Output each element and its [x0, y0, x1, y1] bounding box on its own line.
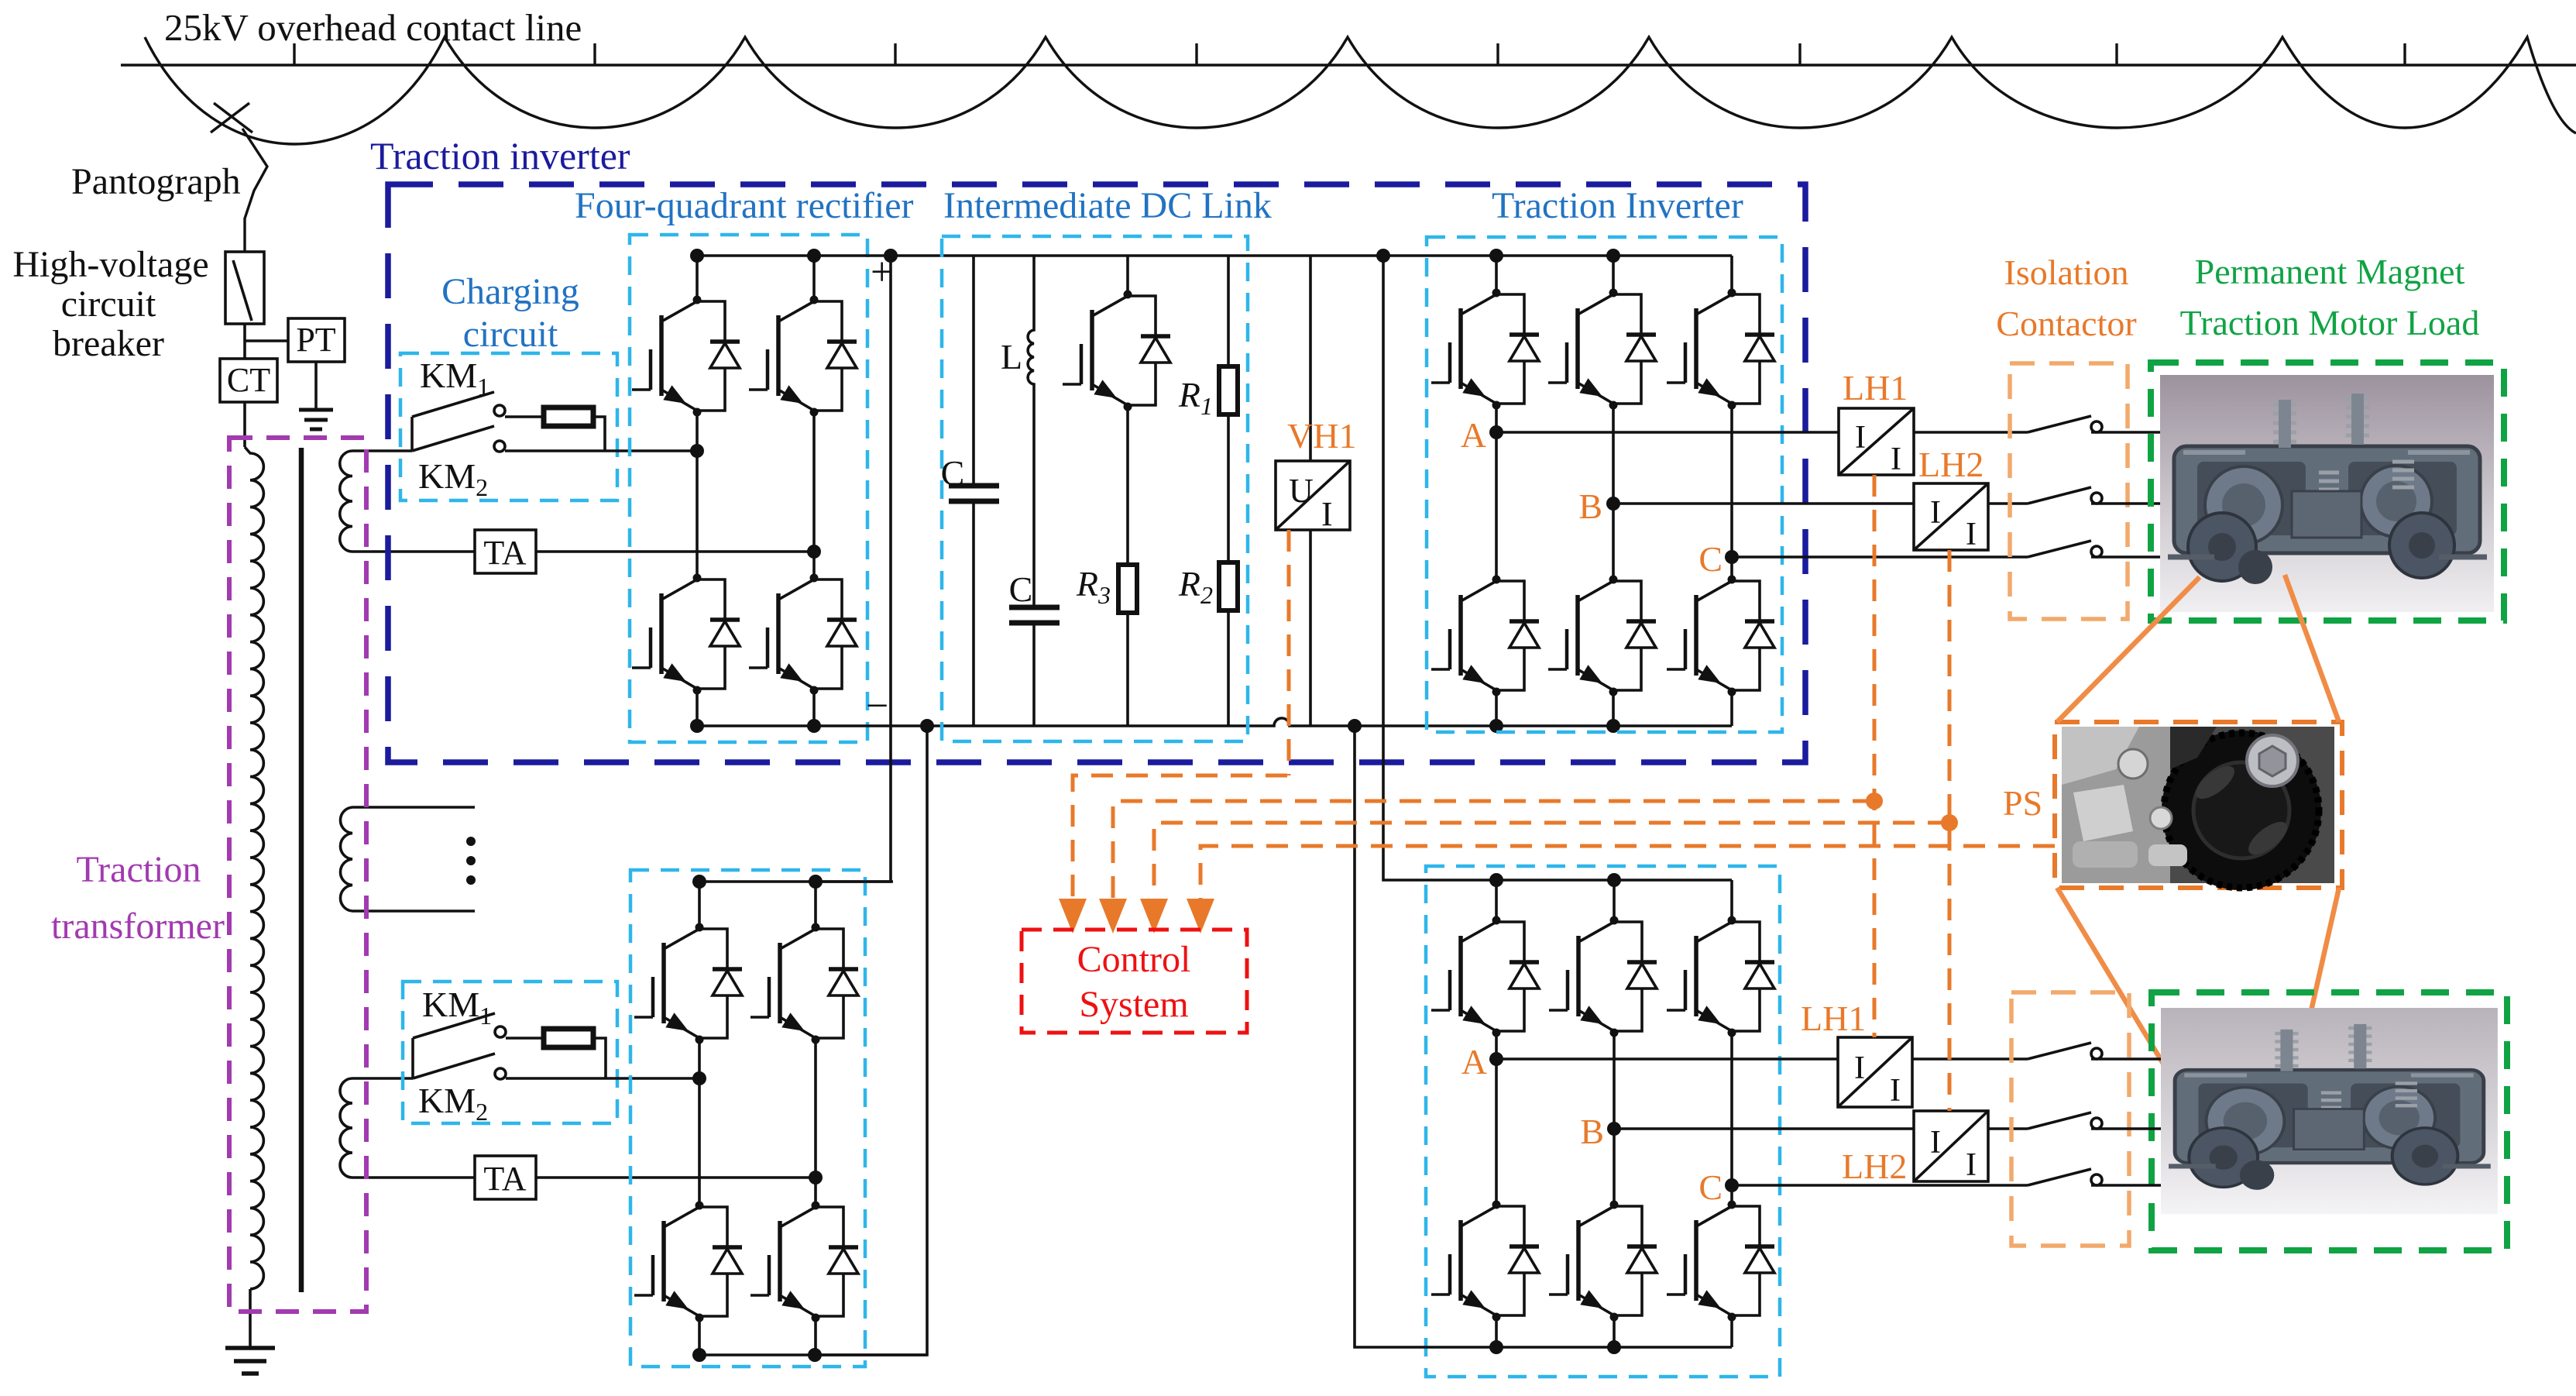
transistor V19 — [1431, 1201, 1539, 1322]
svg-text:TA: TA — [483, 1160, 526, 1198]
svg-text:VH1: VH1 — [1287, 416, 1356, 456]
box: Four-quadrant rectifier (cyan dashed) — [630, 235, 867, 742]
wire: VH1 signal (orange dashed) — [1287, 530, 1291, 775]
ground (transformer earth) — [225, 1348, 275, 1374]
svg-text:A: A — [1461, 1042, 1487, 1081]
transistor V18 — [1667, 916, 1774, 1037]
transistor V17 — [1549, 916, 1657, 1037]
wire: W3 bottom lead to TA — [352, 1176, 475, 1179]
box: Traction Inverter (cyan dashed) — [1427, 237, 1782, 732]
node: phase A junction — [1489, 425, 1503, 439]
wire: plus feed to lower inverter — [1383, 256, 1732, 880]
node: junction TA/rectifier — [807, 545, 821, 559]
transistor V15 — [750, 1202, 858, 1322]
transformer TA (current sensor) — [475, 530, 821, 573]
wire: W3 top lead — [352, 1077, 413, 1080]
switch contactor A lower — [2028, 1043, 2102, 1059]
node: minus bus junctions — [690, 719, 704, 733]
node: LH2 signal junction — [1941, 814, 1958, 831]
svg-text:PT: PT — [296, 321, 335, 359]
wire: catenary messenger curve — [145, 37, 2576, 144]
node: traction bogie photo lower — [2161, 1008, 2498, 1214]
transistor V11 — [1667, 576, 1774, 696]
box: Traction transformer (purple dashed) — [229, 438, 366, 1312]
wire: W2 bottom lead — [352, 909, 475, 913]
box: Permanent Magnet Traction Motor Load upper (green dashed) — [2151, 363, 2504, 621]
svg-text:PS: PS — [2003, 783, 2042, 823]
transformer core — [299, 448, 304, 1292]
ground (PT earth) — [299, 410, 333, 429]
wire: phase B line — [1613, 502, 1914, 505]
box: Charging circuit (cyan dashed) — [400, 353, 617, 500]
resistor R3 — [1118, 565, 1137, 613]
transformer CT (current transformer) — [220, 359, 277, 402]
wire: phase B after LH2 — [1988, 502, 2028, 505]
wire: rectifier right leg — [812, 256, 816, 726]
svg-text:B: B — [1580, 1112, 1604, 1151]
wire: contactor A to motor — [2091, 431, 2160, 434]
svg-text:C: C — [941, 453, 965, 493]
switch contactor A upper — [2028, 416, 2102, 432]
node: junction KM2/rectifier — [690, 444, 704, 458]
svg-text:L: L — [1001, 337, 1022, 377]
wire: lower rectifier left leg — [698, 882, 701, 1355]
wire: lower phase B line — [1614, 1127, 1914, 1130]
svg-text:C: C — [1698, 1167, 1722, 1207]
wire: inverter leg C — [1730, 256, 1733, 726]
wire: lower inverter leg C — [1730, 880, 1733, 1347]
wire: lower inverter leg B — [1613, 880, 1616, 1347]
resistor R charging — [544, 407, 593, 426]
wire: PS signal horizontal — [1200, 846, 2055, 905]
transistor V16 — [1431, 916, 1539, 1037]
wire: minus feed down to lower rectifier — [815, 726, 927, 1355]
transistor V3 (IGBT+diode) — [632, 574, 740, 695]
svg-text:Contactor: Contactor — [1996, 304, 2136, 343]
transistor V21 — [1667, 1201, 1774, 1322]
box: Permanent Magnet Traction Motor Load lower (green dashed) — [2152, 992, 2507, 1250]
svg-text:breaker: breaker — [53, 323, 164, 364]
box: Isolation Contactor lower (pale orange dashed) — [2011, 992, 2129, 1246]
svg-text:Permanent Magnet: Permanent Magnet — [2195, 252, 2465, 291]
wire: leader PS inset to lower bogie — [2057, 888, 2339, 1168]
wire: lower rectifier bottom bus — [698, 1353, 927, 1356]
pantograph arm — [242, 129, 267, 252]
svg-text:transformer: transformer — [51, 906, 225, 947]
svg-text:Control: Control — [1077, 939, 1191, 980]
capacitor C filter 1 — [972, 256, 975, 726]
svg-text:C: C — [1009, 569, 1033, 609]
wire: breaker to CT — [243, 324, 246, 447]
wire: lower rectifier top bus — [698, 880, 893, 883]
wire: contactor A to motor lower — [2091, 1057, 2161, 1061]
transistor V7 — [1548, 289, 1656, 410]
wire: R1-R2 branch — [1227, 256, 1230, 726]
box: Traction inverter (dark blue dashed) — [388, 184, 1805, 762]
transformer secondary winding W2 (spare) — [340, 807, 352, 911]
wire: lower inverter leg A — [1495, 880, 1498, 1347]
transistor V6 — [1431, 289, 1539, 410]
box: PS sensor inset (orange dashed) — [2055, 722, 2342, 888]
svg-text:Traction Motor Load: Traction Motor Load — [2180, 303, 2480, 342]
svg-text:Isolation: Isolation — [2004, 253, 2129, 292]
svg-text:I: I — [1930, 1125, 1941, 1160]
transistor V10 — [1548, 576, 1656, 696]
node: LH1 signal junction — [1866, 793, 1883, 810]
transistor V2 (IGBT+diode) — [749, 296, 857, 417]
svg-text:LH1: LH1 — [1843, 368, 1908, 407]
wire: KM2 output to lower rectifier leg — [506, 1077, 699, 1080]
resistor R1 — [1219, 366, 1238, 414]
switch contactor C lower — [2028, 1169, 2102, 1185]
svg-text:High-voltage: High-voltage — [12, 244, 208, 285]
circuit breaker QF (high-voltage) — [225, 252, 264, 324]
wire: contactor B to motor — [2091, 502, 2160, 505]
svg-text:Traction inverter: Traction inverter — [370, 134, 630, 177]
node: catenary support ticks — [294, 43, 2405, 65]
svg-text:C: C — [1698, 539, 1722, 579]
wire: inverter leg A — [1495, 256, 1498, 726]
wire: KM1 to resistor lower — [506, 1037, 544, 1040]
wire: rectifier left leg — [696, 256, 699, 726]
wire: W2 top lead — [352, 806, 475, 809]
transformer secondary winding W3 — [340, 1078, 352, 1178]
svg-text:I: I — [1930, 495, 1941, 531]
wire: phase A after LH1 — [1914, 431, 2028, 434]
node: arrow into control system 1 — [1059, 899, 1087, 934]
switch contactor C upper — [2028, 541, 2102, 557]
transistor V8 — [1667, 289, 1774, 410]
wire: LH1 signal horizontal — [1113, 801, 1874, 905]
resistor R2 — [1219, 562, 1238, 610]
box: Intermediate DC Link (cyan dashed) — [942, 236, 1248, 741]
wire: KM2 output to rectifier leg — [505, 449, 697, 452]
svg-text:I: I — [1854, 1050, 1865, 1086]
wire: W1 top lead — [352, 449, 412, 452]
node: junction TA/lower rectifier — [809, 1171, 823, 1185]
wire: DC plus bus — [697, 254, 1732, 257]
wire: phase A line — [1496, 431, 1839, 434]
transistor V4 (IGBT+diode) — [749, 574, 857, 695]
transistor V9 — [1431, 576, 1539, 696]
wire: resistor to KM2 line lower — [593, 1038, 606, 1078]
sensor LH1 lower — [1838, 1037, 1912, 1107]
svg-text:Intermediate DC Link: Intermediate DC Link — [943, 185, 1272, 226]
box: Isolation Contactor upper (pale orange dashed) — [2010, 363, 2128, 619]
inductor L — [1028, 256, 1034, 726]
transistor V12 — [634, 923, 742, 1044]
wire: DC minus bus (with hop) — [697, 718, 1732, 726]
wire: contactor C to motor lower — [2091, 1184, 2161, 1187]
wire: resistor to KM2 line — [593, 417, 605, 451]
svg-text:TA: TA — [483, 534, 526, 572]
node: phase B junction — [1606, 497, 1620, 511]
switch contactor B lower — [2028, 1112, 2102, 1129]
wire: KM pivot link lower — [411, 1038, 414, 1078]
svg-text:Charging: Charging — [441, 271, 579, 312]
wire: minus feed to lower inverter — [1355, 726, 1732, 1347]
transformer T1 primary winding — [245, 447, 263, 1289]
wire: PT to ground — [314, 362, 318, 410]
wire: contactor B to motor lower — [2091, 1127, 2161, 1130]
node: arrow into control system 3 — [1140, 899, 1168, 934]
transistor V1 (IGBT+diode) — [632, 296, 740, 417]
svg-text:B: B — [1578, 487, 1602, 526]
svg-text:I: I — [1966, 517, 1977, 552]
sensor LH2 (current transducer) — [1914, 483, 1988, 550]
wire: chopper branch — [1126, 256, 1129, 726]
sensor LH1 (current transducer) — [1839, 408, 1914, 475]
sensor VH1 (U/I transducer) — [1276, 461, 1350, 530]
transformer secondary winding W1 — [340, 451, 352, 552]
wire: inverter leg B — [1612, 256, 1615, 726]
switch KM1 — [412, 392, 494, 417]
node: winding ellipsis dots — [466, 837, 476, 846]
wire: KM1 to resistor — [505, 415, 544, 418]
wire: lower rectifier right leg — [814, 882, 817, 1355]
wire: overhead contact line — [121, 64, 2576, 66]
svg-text:U: U — [1289, 472, 1314, 510]
box: Traction Inverter lower (cyan dashed) — [1426, 866, 1780, 1377]
resistor R charging lower — [544, 1029, 593, 1047]
wire: LH2 signal horizontal — [1154, 823, 1949, 905]
wire: W1 bottom lead to TA — [352, 550, 475, 553]
svg-text:LH1: LH1 — [1801, 999, 1866, 1038]
node: phase C junction — [1725, 550, 1739, 564]
svg-text:Pantograph: Pantograph — [71, 161, 241, 202]
box: Charging circuit lower (cyan dashed) — [403, 982, 617, 1123]
svg-text:Four-quadrant rectifier: Four-quadrant rectifier — [575, 185, 914, 226]
svg-text:Traction: Traction — [77, 849, 201, 890]
svg-text:I: I — [1891, 442, 1901, 477]
pantograph contact cross — [211, 103, 252, 132]
transistor V13 — [750, 923, 858, 1044]
transistor V5 chopper IGBT — [1063, 291, 1170, 411]
svg-text:A: A — [1461, 415, 1486, 455]
wire: plus feed down to lower rectifier — [816, 256, 891, 882]
node: junction KM2/lower rectifier — [692, 1071, 706, 1085]
wire: phase C line — [1732, 555, 2028, 559]
svg-text:Traction Inverter: Traction Inverter — [1492, 185, 1743, 226]
svg-text:circuit: circuit — [463, 314, 558, 355]
svg-text:25kV overhead contact line: 25kV overhead contact line — [164, 6, 582, 49]
node: arrow into control system 4 — [1187, 899, 1214, 934]
transistor V20 — [1549, 1201, 1657, 1322]
svg-text:circuit: circuit — [61, 284, 156, 325]
box: Control System (red dashed) — [1022, 930, 1247, 1033]
node: PS photo (speed sensor closeup) — [2062, 727, 2334, 890]
switch KM1 lower — [413, 1013, 495, 1038]
svg-text:System: System — [1079, 984, 1188, 1025]
wire: leader upper bogie to PS inset — [2057, 575, 2339, 722]
transistor V14 — [634, 1202, 742, 1322]
svg-text:I: I — [1966, 1147, 1977, 1183]
transformer TA lower (current sensor) — [475, 1156, 823, 1199]
transformer PT (potential transformer) — [288, 318, 345, 362]
node: traction bogie photo upper — [2160, 375, 2494, 612]
svg-text:I: I — [1890, 1073, 1901, 1109]
sensor LH2 lower — [1914, 1111, 1988, 1181]
svg-text:−: − — [866, 684, 888, 728]
wire: lower phase A line — [1496, 1057, 1838, 1061]
switch KM2 — [412, 426, 494, 451]
box: Four-quadrant rectifier lower (cyan dashed) — [630, 870, 865, 1367]
node: arrow into control system 2 — [1099, 899, 1127, 934]
wire: primary to ground — [249, 1289, 252, 1348]
node: plus bus junctions — [690, 249, 704, 263]
wire: KM pivot link — [410, 417, 414, 451]
wire: VH1 signal horizontal — [1073, 775, 1287, 905]
wire: LH2 signal vertical upper — [1948, 550, 1952, 1111]
wire: TA to rectifier right leg — [536, 550, 814, 553]
svg-text:LH2: LH2 — [1918, 445, 1984, 484]
svg-text:I: I — [1321, 495, 1333, 533]
switch KM2 lower — [413, 1054, 495, 1078]
wire: lower phase B after LH2 — [1988, 1127, 2028, 1130]
svg-text:I: I — [1855, 420, 1866, 456]
wire: lower phase A after LH1 — [1912, 1057, 2028, 1061]
wire: lower phase C line — [1732, 1184, 2028, 1187]
wire: LH1 signal vertical upper — [1873, 475, 1877, 1037]
wire: VH1 branch — [1309, 256, 1312, 726]
switch contactor B upper — [2028, 487, 2102, 504]
wire: tap to PT — [245, 339, 288, 342]
wire: contactor C to motor — [2091, 555, 2160, 559]
svg-text:CT: CT — [227, 361, 270, 399]
capacitor C filter 2 — [1009, 607, 1060, 623]
svg-text:LH2: LH2 — [1842, 1147, 1907, 1186]
